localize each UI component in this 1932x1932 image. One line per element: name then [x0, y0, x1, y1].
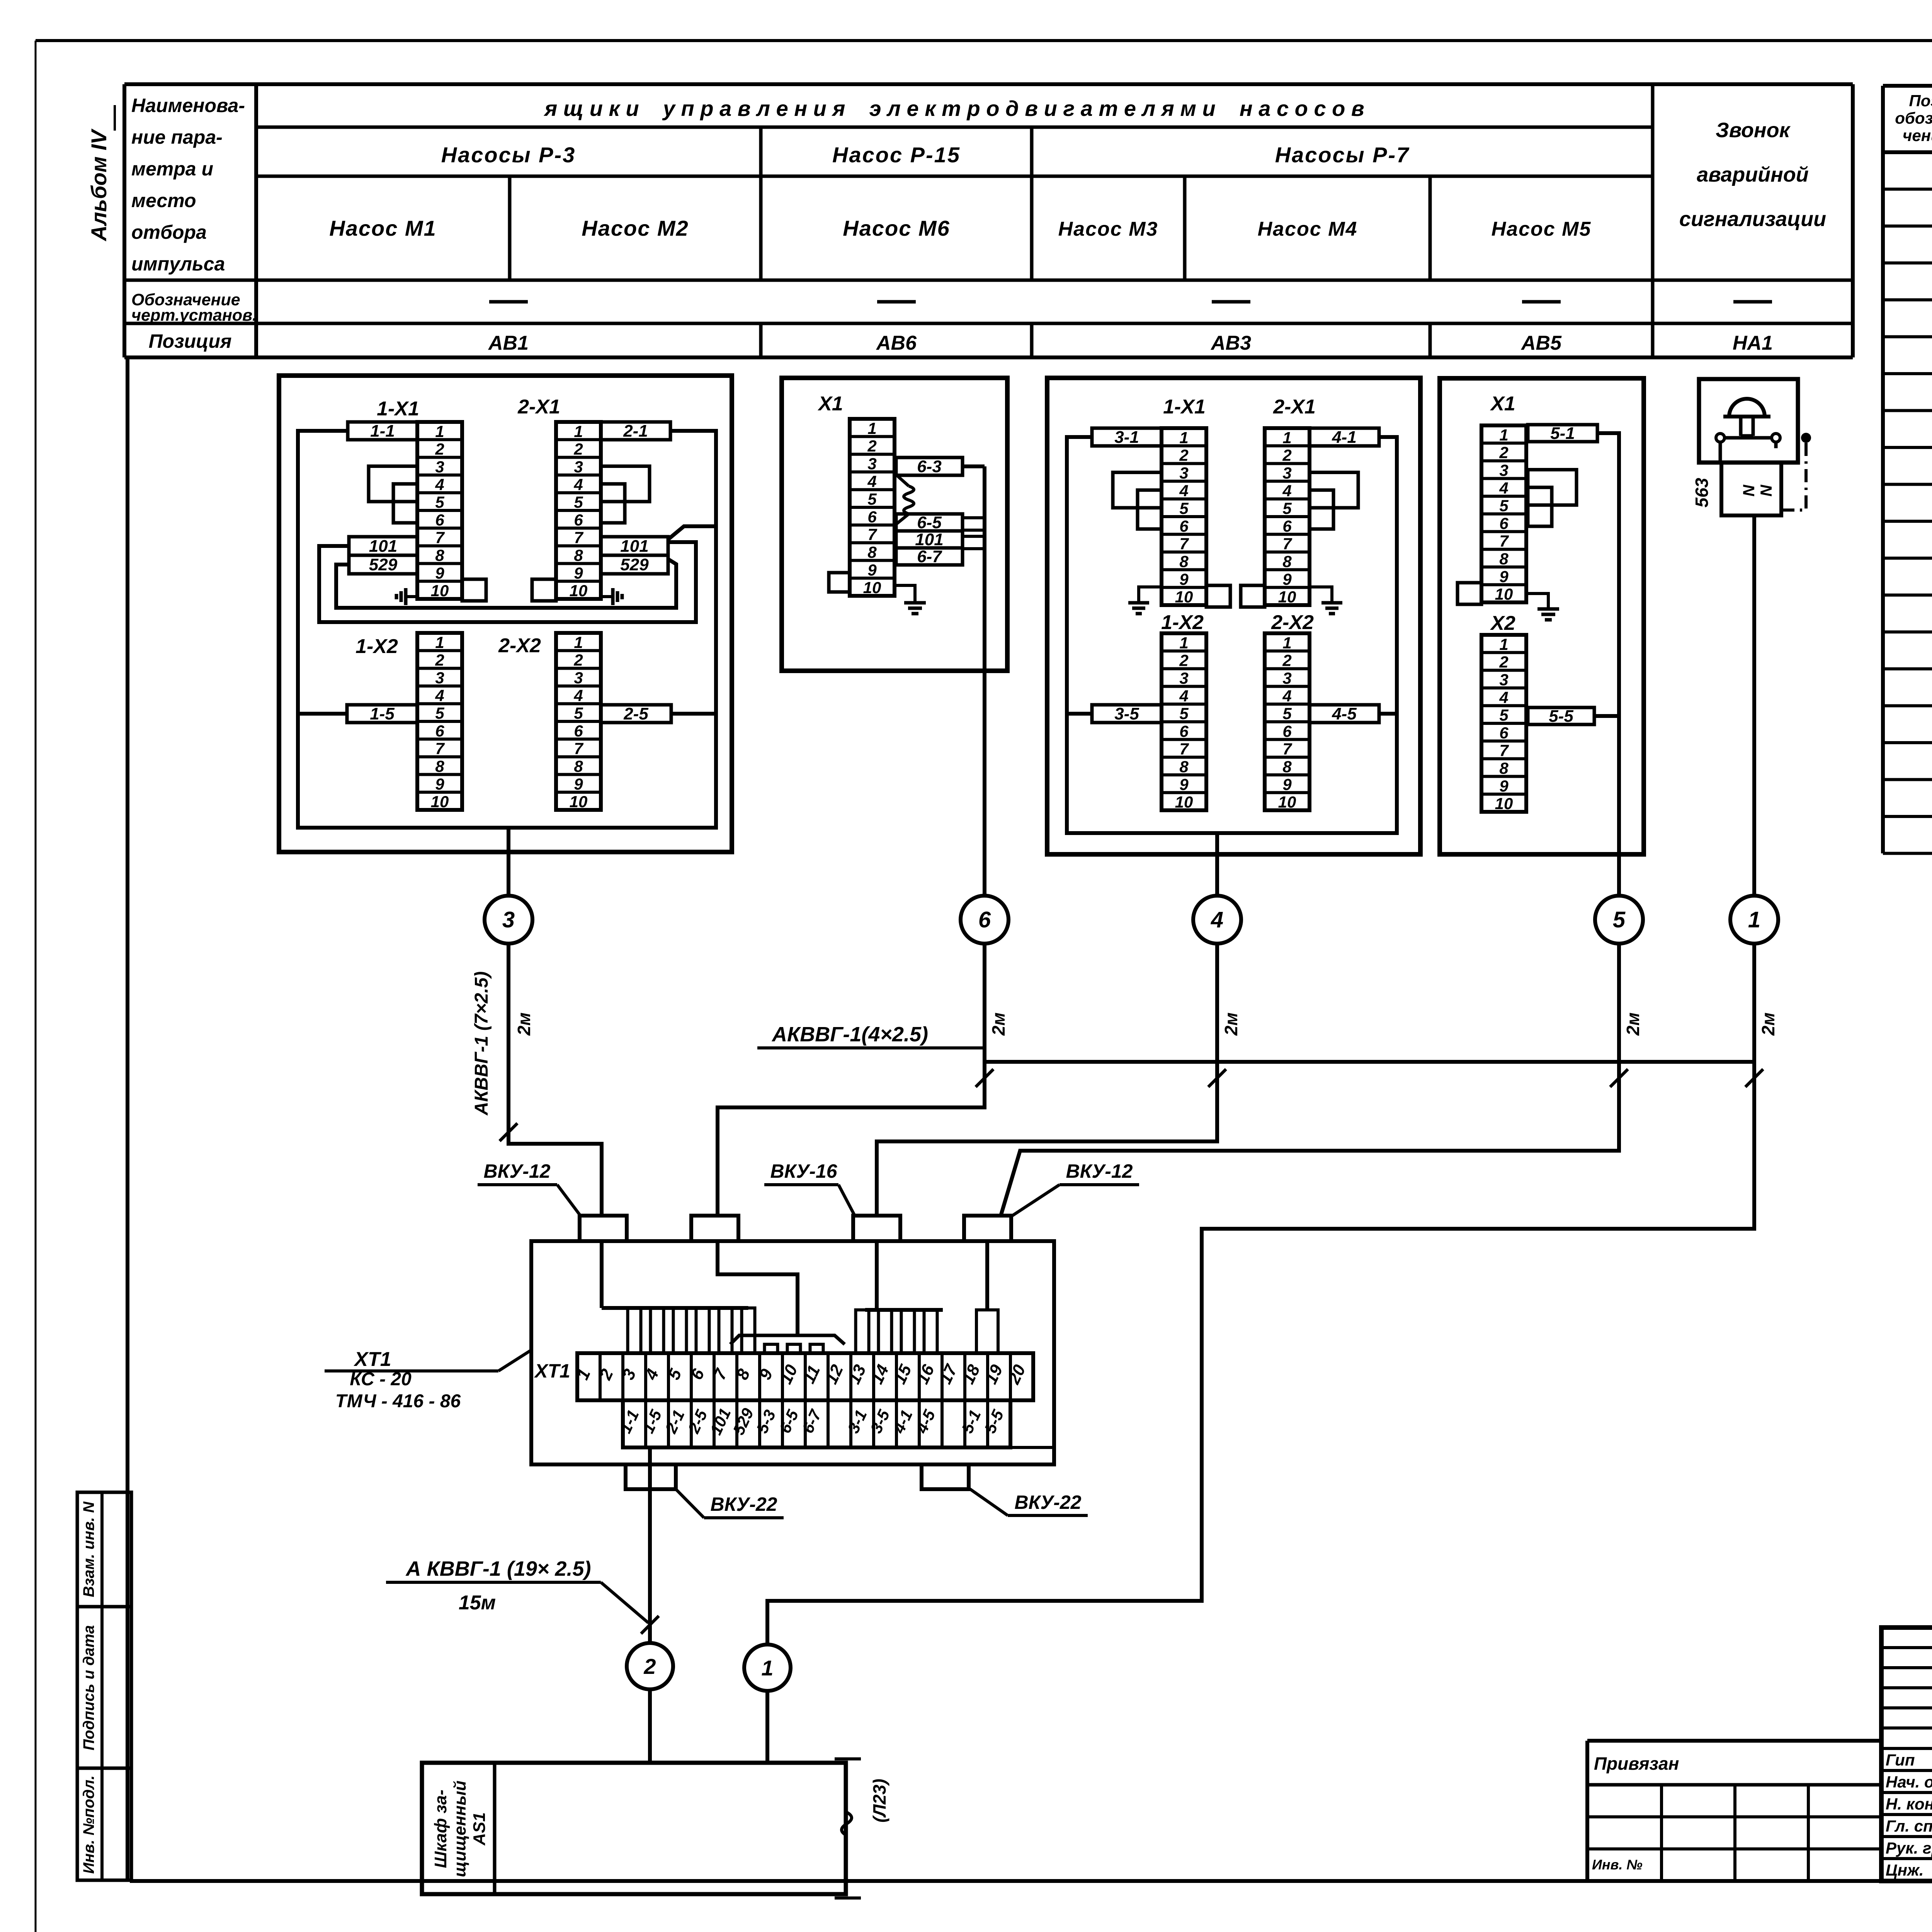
svg-text:6: 6 — [867, 508, 877, 526]
svg-text:3: 3 — [1179, 464, 1188, 482]
svg-text:Инв. №подл.: Инв. №подл. — [80, 1776, 97, 1874]
svg-text:я щ и к и у п р а в л е н и: я щ и к и у п р а в л е н и я э л е к т … — [543, 96, 1364, 121]
svg-text:Насос М1: Насос М1 — [329, 216, 436, 240]
svg-text:7: 7 — [574, 740, 583, 758]
svg-text:1: 1 — [435, 422, 444, 440]
svg-text:АКВВГ-1 (7×2.5): АКВВГ-1 (7×2.5) — [471, 971, 492, 1116]
svg-text:4: 4 — [435, 686, 444, 704]
svg-text:2: 2 — [643, 1654, 656, 1679]
svg-text:2м: 2м — [1623, 1012, 1643, 1036]
svg-text:10: 10 — [1278, 588, 1296, 606]
svg-text:Нач. отд.: Нач. отд. — [1886, 1773, 1932, 1791]
svg-text:сигнализации: сигнализации — [1679, 207, 1826, 231]
svg-text:7: 7 — [1282, 535, 1292, 553]
svg-text:2: 2 — [1282, 446, 1291, 464]
svg-text:2: 2 — [573, 440, 583, 458]
svg-text:101: 101 — [369, 537, 397, 556]
svg-text:1: 1 — [574, 422, 583, 440]
svg-text:7: 7 — [1499, 532, 1509, 550]
svg-text:9: 9 — [1282, 570, 1292, 588]
svg-text:4-1: 4-1 — [1332, 428, 1357, 447]
svg-text:2м: 2м — [514, 1012, 534, 1036]
svg-text:9: 9 — [435, 564, 444, 582]
svg-text:(Л23): (Л23) — [869, 1779, 889, 1822]
svg-text:6: 6 — [574, 722, 583, 740]
svg-text:3: 3 — [435, 669, 444, 687]
svg-text:место: место — [131, 190, 196, 211]
svg-text:Позиция: Позиция — [149, 330, 232, 352]
svg-text:5: 5 — [1499, 497, 1509, 515]
svg-text:Х1: Х1 — [1490, 393, 1515, 415]
svg-text:5: 5 — [1282, 499, 1292, 517]
svg-text:Гл. спец.: Гл. спец. — [1886, 1817, 1932, 1835]
svg-text:3: 3 — [1282, 669, 1291, 687]
svg-text:отбора: отбора — [131, 221, 207, 243]
svg-text:8: 8 — [435, 757, 444, 776]
svg-text:АКВВГ-1(4×2.5): АКВВГ-1(4×2.5) — [771, 1023, 928, 1046]
svg-text:1-1: 1-1 — [370, 422, 395, 440]
svg-text:8: 8 — [574, 757, 583, 776]
svg-text:2-Х1: 2-Х1 — [517, 396, 560, 418]
svg-text:2: 2 — [1179, 651, 1188, 670]
svg-text:8: 8 — [435, 546, 444, 565]
svg-text:4: 4 — [867, 472, 876, 490]
svg-text:Н. контр.: Н. контр. — [1886, 1795, 1932, 1813]
svg-text:2: 2 — [1179, 446, 1188, 464]
svg-text:8: 8 — [1499, 759, 1509, 777]
svg-text:10: 10 — [431, 582, 449, 600]
svg-text:3: 3 — [502, 907, 515, 932]
svg-text:5: 5 — [435, 704, 444, 722]
svg-text:3: 3 — [1282, 464, 1291, 482]
svg-text:9: 9 — [574, 564, 583, 582]
svg-text:3: 3 — [1179, 669, 1188, 687]
svg-text:1: 1 — [574, 633, 583, 651]
svg-text:АВ5: АВ5 — [1520, 332, 1562, 354]
svg-text:9: 9 — [1179, 570, 1189, 588]
svg-text:6: 6 — [435, 511, 444, 529]
svg-text:ХТ1: ХТ1 — [534, 1360, 570, 1382]
svg-text:9: 9 — [1499, 567, 1509, 585]
svg-text:4: 4 — [1179, 481, 1188, 500]
svg-text:7: 7 — [1179, 740, 1189, 758]
svg-text:4: 4 — [1499, 688, 1508, 706]
svg-text:Рук. гр.: Рук. гр. — [1886, 1839, 1932, 1857]
svg-text:Инв. №: Инв. № — [1592, 1857, 1643, 1872]
svg-text:черт.установ.: черт.установ. — [131, 306, 257, 325]
svg-text:7: 7 — [1499, 742, 1509, 760]
svg-text:Насос М3: Насос М3 — [1058, 218, 1158, 240]
svg-text:аварийной: аварийной — [1697, 163, 1809, 186]
svg-text:Шкаф за-: Шкаф за- — [431, 1789, 450, 1868]
svg-text:2: 2 — [1499, 653, 1508, 671]
svg-text:2: 2 — [1282, 651, 1291, 670]
svg-text:1: 1 — [1499, 635, 1508, 653]
svg-text:3: 3 — [435, 458, 444, 476]
svg-text:ТМЧ - 416 - 86: ТМЧ - 416 - 86 — [335, 1391, 461, 1412]
svg-text:7: 7 — [1282, 740, 1292, 758]
svg-text:529: 529 — [620, 555, 649, 574]
svg-text:6-7: 6-7 — [917, 547, 942, 566]
svg-text:4: 4 — [1211, 907, 1223, 932]
svg-text:чение: чение — [1903, 126, 1932, 145]
svg-text:2: 2 — [435, 440, 444, 458]
svg-text:1: 1 — [867, 419, 876, 437]
svg-text:7: 7 — [867, 526, 877, 544]
svg-text:10: 10 — [1175, 793, 1193, 811]
svg-text:8: 8 — [867, 543, 877, 561]
svg-text:2: 2 — [867, 437, 876, 455]
svg-text:10: 10 — [863, 578, 881, 597]
svg-text:1: 1 — [761, 1656, 773, 1680]
svg-text:5: 5 — [1613, 907, 1626, 932]
svg-text:1: 1 — [1748, 907, 1760, 932]
svg-text:10: 10 — [1495, 585, 1513, 603]
svg-text:5: 5 — [1179, 499, 1189, 517]
svg-text:3: 3 — [1499, 461, 1508, 480]
svg-text:2: 2 — [573, 651, 583, 669]
svg-text:6: 6 — [978, 907, 991, 932]
svg-text:АВ3: АВ3 — [1210, 332, 1251, 354]
svg-text:5: 5 — [574, 704, 583, 722]
svg-text:А КВВГ-1 (19× 2.5): А КВВГ-1 (19× 2.5) — [405, 1557, 591, 1580]
svg-text:15м: 15м — [459, 1592, 496, 1614]
svg-text:1-Х2: 1-Х2 — [355, 635, 398, 658]
svg-text:6: 6 — [1282, 517, 1292, 535]
svg-text:1: 1 — [1282, 429, 1291, 447]
svg-text:8: 8 — [1179, 758, 1189, 776]
svg-text:7: 7 — [574, 529, 583, 547]
svg-text:3: 3 — [574, 458, 583, 476]
svg-text:3: 3 — [867, 455, 876, 473]
svg-text:Подпись и дата: Подпись и дата — [80, 1625, 97, 1750]
svg-text:3-1: 3-1 — [1114, 428, 1139, 447]
svg-text:2-5: 2-5 — [623, 704, 648, 723]
svg-text:5: 5 — [1282, 704, 1292, 723]
svg-text:9: 9 — [867, 561, 877, 579]
svg-text:4: 4 — [435, 475, 444, 493]
svg-text:101: 101 — [620, 537, 648, 556]
svg-text:3-5: 3-5 — [1114, 704, 1139, 723]
svg-text:563: 563 — [1692, 478, 1712, 507]
svg-text:5: 5 — [435, 493, 444, 511]
svg-text:10: 10 — [570, 582, 588, 600]
svg-text:ВКУ-16: ВКУ-16 — [770, 1160, 838, 1182]
svg-text:щищенный: щищенный — [451, 1781, 469, 1877]
svg-text:1: 1 — [1179, 634, 1188, 652]
svg-text:5-5: 5-5 — [1549, 707, 1573, 726]
svg-text:5: 5 — [574, 493, 583, 511]
svg-text:2-Х1: 2-Х1 — [1273, 396, 1316, 418]
svg-text:8: 8 — [1499, 550, 1509, 568]
svg-text:10: 10 — [1278, 793, 1296, 811]
svg-text:4: 4 — [1282, 687, 1291, 705]
svg-text:АВ6: АВ6 — [876, 332, 917, 354]
svg-text:9: 9 — [574, 775, 583, 793]
svg-text:7: 7 — [435, 740, 445, 758]
svg-text:1-Х2: 1-Х2 — [1161, 611, 1204, 634]
svg-text:2м: 2м — [1758, 1012, 1778, 1036]
svg-text:1-Х1: 1-Х1 — [377, 398, 419, 420]
svg-text:2м: 2м — [1221, 1012, 1241, 1036]
svg-text:2м: 2м — [988, 1012, 1009, 1036]
svg-text:Альбом IV: Альбом IV — [87, 128, 111, 242]
svg-text:импульса: импульса — [131, 253, 225, 275]
svg-text:2: 2 — [1499, 444, 1508, 462]
svg-text:2: 2 — [435, 651, 444, 669]
svg-text:метра и: метра и — [131, 158, 213, 180]
svg-text:Взам. инв. N: Взам. инв. N — [80, 1501, 97, 1597]
svg-text:3: 3 — [574, 669, 583, 687]
svg-text:1: 1 — [435, 633, 444, 651]
svg-text:НА1: НА1 — [1733, 332, 1773, 354]
svg-text:9: 9 — [1282, 775, 1292, 793]
svg-text:4: 4 — [1282, 481, 1291, 500]
svg-text:9: 9 — [1179, 775, 1189, 793]
svg-text:6: 6 — [1499, 724, 1509, 742]
svg-text:1-5: 1-5 — [370, 704, 395, 723]
svg-text:ВКУ-12: ВКУ-12 — [484, 1160, 551, 1182]
svg-text:Насосы Р-7: Насосы Р-7 — [1275, 143, 1410, 167]
svg-text:ВКУ-22: ВКУ-22 — [711, 1493, 777, 1515]
svg-text:АВ1: АВ1 — [488, 332, 529, 354]
svg-text:Х1: Х1 — [817, 393, 843, 415]
svg-text:10: 10 — [1495, 794, 1513, 813]
svg-text:Насос М4: Насос М4 — [1258, 218, 1358, 240]
svg-text:4: 4 — [1179, 687, 1188, 705]
svg-text:Х2: Х2 — [1490, 612, 1515, 634]
svg-text:Звонок: Звонок — [1716, 119, 1791, 142]
svg-text:6: 6 — [1179, 722, 1189, 740]
svg-text:5: 5 — [1179, 704, 1189, 723]
svg-text:2-Х2: 2-Х2 — [1271, 611, 1314, 634]
svg-text:Насос Р-15: Насос Р-15 — [832, 143, 961, 167]
svg-text:1-Х1: 1-Х1 — [1163, 396, 1206, 418]
svg-text:6: 6 — [1499, 514, 1509, 532]
svg-text:8: 8 — [1282, 758, 1292, 776]
svg-text:Насос М5: Насос М5 — [1492, 218, 1592, 240]
svg-text:ВКУ-12: ВКУ-12 — [1066, 1160, 1133, 1182]
svg-text:КС - 20: КС - 20 — [350, 1369, 412, 1389]
svg-text:8: 8 — [1282, 553, 1292, 571]
svg-text:6-3: 6-3 — [917, 457, 942, 476]
svg-text:ХТ1: ХТ1 — [353, 1348, 391, 1371]
svg-text:ВКУ-22: ВКУ-22 — [1015, 1492, 1082, 1513]
svg-text:8: 8 — [574, 546, 583, 565]
svg-text:АS1: АS1 — [470, 1812, 489, 1846]
svg-text:4-5: 4-5 — [1332, 704, 1357, 723]
svg-text:3: 3 — [1499, 671, 1508, 689]
svg-text:10: 10 — [431, 793, 449, 811]
svg-text:обозна-: обозна- — [1895, 109, 1932, 127]
svg-text:5: 5 — [867, 490, 877, 508]
svg-text:Насос М2: Насос М2 — [582, 216, 689, 240]
svg-text:6: 6 — [435, 722, 444, 740]
svg-text:Гип: Гип — [1886, 1751, 1915, 1769]
svg-text:N: N — [1757, 484, 1775, 497]
svg-text:Привязан: Привязан — [1594, 1753, 1679, 1774]
svg-text:4: 4 — [573, 686, 583, 704]
svg-text:1: 1 — [1499, 426, 1508, 444]
svg-text:5-1: 5-1 — [1550, 424, 1575, 443]
svg-text:10: 10 — [570, 793, 588, 811]
svg-text:N: N — [1740, 484, 1758, 497]
svg-text:6: 6 — [574, 511, 583, 529]
svg-text:4: 4 — [573, 475, 583, 493]
svg-text:1: 1 — [1282, 634, 1291, 652]
svg-text:7: 7 — [1179, 535, 1189, 553]
svg-text:2-Х2: 2-Х2 — [498, 634, 541, 657]
svg-text:Наименова-: Наименова- — [131, 95, 245, 116]
svg-text:Насос М6: Насос М6 — [843, 216, 950, 240]
svg-text:2-1: 2-1 — [623, 422, 648, 440]
svg-text:9: 9 — [1499, 777, 1509, 795]
svg-text:Насосы Р-3: Насосы Р-3 — [441, 143, 576, 167]
svg-text:9: 9 — [435, 775, 444, 793]
svg-text:Цнж.: Цнж. — [1886, 1861, 1924, 1879]
svg-text:6: 6 — [1282, 722, 1292, 740]
svg-text:10: 10 — [1175, 588, 1193, 606]
svg-text:Поз.: Поз. — [1909, 92, 1932, 110]
svg-text:4: 4 — [1499, 479, 1508, 497]
svg-text:7: 7 — [435, 529, 445, 547]
svg-text:8: 8 — [1179, 553, 1189, 571]
svg-text:529: 529 — [369, 555, 398, 574]
svg-text:1: 1 — [1179, 429, 1188, 447]
svg-text:6: 6 — [1179, 517, 1189, 535]
svg-text:5: 5 — [1499, 706, 1509, 724]
svg-text:ние пара-: ние пара- — [131, 126, 223, 148]
